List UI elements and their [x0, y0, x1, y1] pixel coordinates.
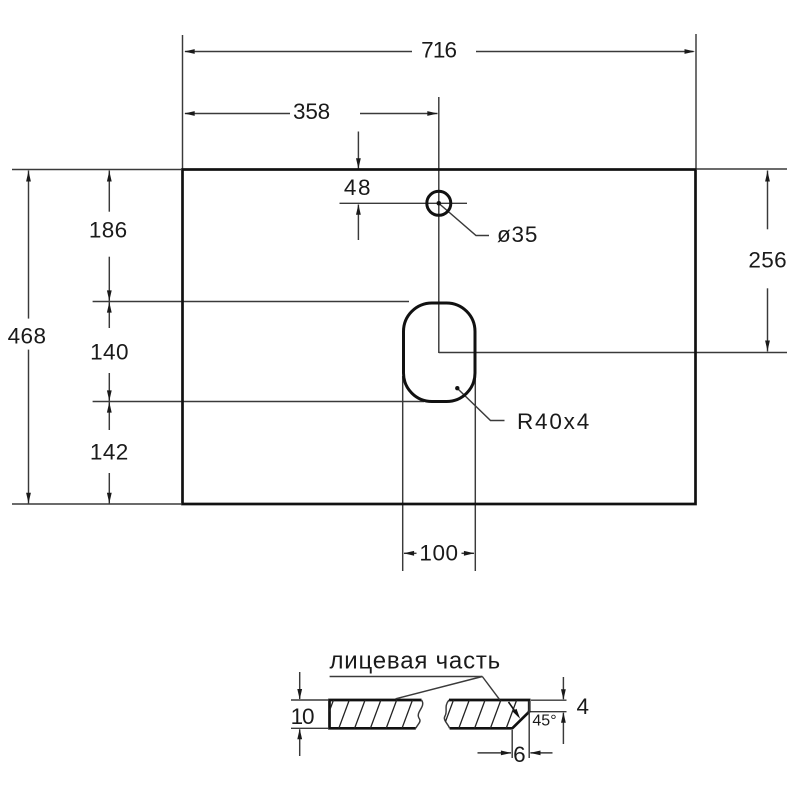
svg-text:лицевая часть: лицевая часть — [330, 648, 501, 675]
svg-text:10: 10 — [291, 704, 314, 729]
svg-text:6: 6 — [513, 742, 525, 767]
svg-text:142: 142 — [90, 440, 129, 465]
svg-text:R40x4: R40x4 — [517, 409, 591, 434]
svg-text:256: 256 — [748, 248, 787, 273]
svg-text:468: 468 — [8, 324, 47, 349]
svg-text:186: 186 — [89, 218, 128, 243]
svg-text:48: 48 — [344, 175, 372, 200]
svg-text:716: 716 — [421, 38, 456, 63]
svg-text:45°: 45° — [532, 713, 556, 730]
svg-text:100: 100 — [419, 541, 458, 566]
svg-text:ø35: ø35 — [497, 222, 538, 247]
svg-text:358: 358 — [293, 99, 330, 124]
svg-text:140: 140 — [90, 340, 129, 365]
svg-text:4: 4 — [577, 694, 589, 719]
